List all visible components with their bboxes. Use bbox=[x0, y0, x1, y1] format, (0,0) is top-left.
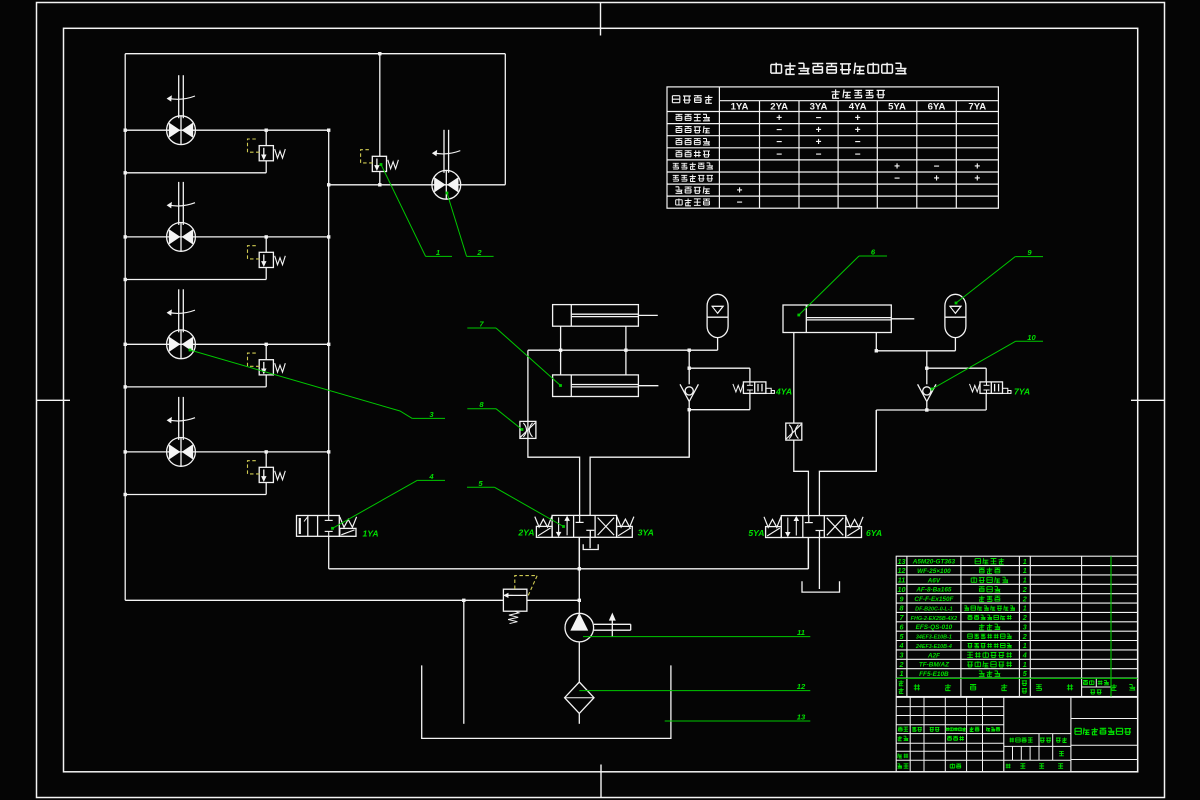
BOM row 8 直动锥阀外控压阀 bbox=[900, 604, 1027, 613]
wire tank drop bbox=[463, 600, 465, 724]
svg-text:12: 12 bbox=[797, 682, 806, 691]
node bypass2 bottom bbox=[925, 408, 928, 411]
balloon label 7 bbox=[467, 320, 562, 387]
cycle row 扫盘停止 bbox=[676, 150, 710, 157]
wire motor M4 supply line bbox=[125, 451, 329, 453]
BOM row 10 单向阀 bbox=[898, 585, 1027, 594]
wire motor M2 supply line bbox=[125, 236, 329, 238]
wire check valve CV2 branch bbox=[926, 351, 928, 385]
relief valve RV6 system unloading bbox=[503, 589, 527, 623]
check valve CV2 bbox=[918, 384, 936, 401]
wire cylinder C3 right port bbox=[875, 333, 877, 351]
svg-text:CF-F-Ex150F: CF-F-Ex150F bbox=[914, 596, 954, 603]
directional valve V3 (3-pos 4-way) bbox=[764, 516, 863, 538]
cycle table grid bbox=[667, 87, 998, 208]
node tee RV4 bbox=[265, 450, 268, 453]
svg-text:1YA: 1YA bbox=[731, 102, 749, 113]
svg-text:+: + bbox=[816, 125, 822, 136]
pilot line RV5 bbox=[361, 150, 373, 163]
node RV5 top bbox=[378, 52, 381, 55]
wire right manifold bbox=[876, 350, 955, 352]
node rail M4 bbox=[124, 450, 127, 453]
node tank drop tee bbox=[462, 599, 465, 602]
hydraulic cylinder C1 bbox=[553, 305, 658, 327]
svg-text:−: − bbox=[737, 198, 743, 209]
svg-text:1: 1 bbox=[1023, 566, 1027, 575]
pump P1 bbox=[565, 613, 594, 642]
solenoid valve V4 bbox=[733, 382, 775, 394]
oil tank T1 bbox=[422, 665, 671, 738]
node relief tee bbox=[578, 599, 581, 602]
svg-text:11: 11 bbox=[898, 576, 905, 585]
svg-text:1: 1 bbox=[436, 248, 440, 257]
svg-text:+: + bbox=[855, 125, 861, 136]
solenoid valve V5 bbox=[970, 382, 1012, 394]
svg-text:8: 8 bbox=[900, 604, 904, 613]
svg-text:EFS-QS-010: EFS-QS-010 bbox=[916, 624, 953, 631]
svg-text:−: − bbox=[816, 149, 822, 160]
cycle row 垃圾箱锁止 bbox=[673, 175, 713, 182]
node right manifold bbox=[875, 349, 878, 352]
svg-text:1: 1 bbox=[1023, 604, 1027, 613]
svg-text:2: 2 bbox=[1022, 585, 1027, 594]
BOM green vertical line bbox=[1110, 556, 1112, 696]
wire valve V3 port T bbox=[818, 538, 820, 590]
wire valve V3 port B jog bbox=[819, 410, 876, 516]
svg-text:FHG-2-EX25B-4X2: FHG-2-EX25B-4X2 bbox=[911, 616, 957, 622]
svg-text:3YA: 3YA bbox=[810, 102, 828, 113]
balloon label 10 bbox=[931, 333, 1043, 391]
svg-text:FF5-E10B: FF5-E10B bbox=[919, 671, 949, 678]
directional valve V2 (3-pos 4-way) bbox=[535, 515, 634, 537]
svg-text:10: 10 bbox=[1027, 333, 1036, 342]
wire valve V2 port B jog bbox=[590, 410, 689, 516]
svg-text:4: 4 bbox=[1022, 651, 1027, 660]
svg-text:7YA: 7YA bbox=[1014, 387, 1030, 397]
node bypass bottom bbox=[688, 408, 691, 411]
svg-text:1: 1 bbox=[900, 669, 904, 678]
wire pump to filter bbox=[578, 642, 580, 682]
svg-text:1: 1 bbox=[1023, 557, 1027, 566]
svg-text:2: 2 bbox=[1022, 632, 1027, 641]
svg-text:A6V: A6V bbox=[927, 577, 941, 584]
cycle row 垃圾箱上升 bbox=[673, 163, 713, 170]
wire top line bbox=[125, 53, 505, 55]
hydraulic motor M2 bbox=[167, 182, 196, 251]
balloon label 11 bbox=[583, 628, 810, 637]
relief valve RV5 bbox=[372, 156, 398, 171]
svg-text:7YA: 7YA bbox=[968, 102, 986, 113]
wire cylinder C3 left port bbox=[793, 333, 795, 424]
centering mark bottom bbox=[600, 765, 602, 798]
svg-text:+: + bbox=[894, 161, 900, 172]
svg-text:34EF3-E10B-1: 34EF3-E10B-1 bbox=[916, 635, 952, 641]
svg-text:−: − bbox=[776, 125, 782, 136]
wire cylinder C1 right port bbox=[625, 326, 627, 375]
BOM parts table bbox=[896, 556, 1137, 696]
node pressure tee bbox=[578, 567, 581, 570]
wire valve V3 port A jog bbox=[794, 440, 809, 515]
svg-text:−: − bbox=[776, 137, 782, 148]
wire bus below 1YA bbox=[328, 536, 330, 569]
wire B line down bbox=[875, 410, 877, 471]
wire bus vertical bbox=[328, 130, 330, 515]
hydraulic motor M4 bbox=[167, 397, 196, 466]
svg-text:+: + bbox=[934, 174, 940, 185]
wire return line to tank bbox=[125, 599, 503, 601]
pilot line RV4 bbox=[248, 461, 260, 474]
hydraulic cylinder C3 bbox=[783, 305, 914, 333]
cycle row 道路行走 bbox=[676, 199, 710, 206]
wire cylinder manifold left bbox=[528, 349, 718, 351]
node cyl ports bbox=[559, 349, 562, 352]
centering mark top bbox=[600, 3, 602, 36]
node RV5 bottom bbox=[378, 183, 381, 186]
node bus top bbox=[327, 129, 330, 132]
wire right drop to motor M5 bbox=[504, 54, 506, 185]
wire relief RV3 drop bbox=[265, 344, 267, 359]
node rail M1 bbox=[124, 129, 127, 132]
svg-text:1: 1 bbox=[1023, 660, 1027, 669]
wire motor M3 return line bbox=[125, 386, 266, 388]
node rail M3 bbox=[124, 343, 127, 346]
node bypass2 top bbox=[925, 367, 928, 370]
balloon label 6 bbox=[797, 248, 887, 317]
wire bypass bottom line bbox=[689, 409, 750, 411]
relief valve RV4 bbox=[259, 467, 285, 482]
wire relief RV1 drop bbox=[265, 130, 267, 145]
throttle valve TH1 bbox=[520, 421, 536, 438]
svg-text:WF-25×100: WF-25×100 bbox=[917, 568, 951, 575]
svg-text:+: + bbox=[737, 186, 743, 197]
svg-text:5YA: 5YA bbox=[888, 102, 906, 113]
BOM row 4 二位二通换向阀 bbox=[899, 641, 1027, 650]
pilot line RV3 bbox=[248, 353, 260, 366]
node tee RV1 bbox=[265, 129, 268, 132]
cycle row 清扫作业 bbox=[676, 186, 710, 193]
balloon label 5 bbox=[467, 479, 565, 528]
accumulator A2 bbox=[945, 294, 966, 337]
svg-text:13: 13 bbox=[797, 713, 806, 722]
svg-text:−: − bbox=[894, 174, 900, 185]
wire valve V3 port P bbox=[807, 538, 809, 569]
cycle row 扫盘下降 bbox=[676, 114, 710, 121]
node bus M3 bbox=[327, 343, 330, 346]
relief valve RV3 bbox=[259, 360, 285, 375]
wire valve V2 port A jog bbox=[528, 350, 580, 515]
wire relief RV4 drop bbox=[265, 452, 267, 467]
relief valve RV1 bbox=[259, 146, 285, 161]
hydraulic motor M1 bbox=[167, 75, 196, 144]
svg-text:−: − bbox=[816, 113, 822, 124]
balloon label 8 bbox=[467, 400, 523, 431]
svg-text:4YA: 4YA bbox=[849, 102, 867, 113]
balloon label 2 bbox=[446, 192, 494, 257]
node bus M5 bbox=[327, 183, 330, 186]
hydraulic motor M3 bbox=[167, 289, 196, 358]
wire cylinder C1 left port bbox=[560, 326, 562, 375]
wire accumulator A2 stem bbox=[954, 338, 956, 351]
wire left supply rail bbox=[124, 54, 126, 601]
wire 1YA to pump junction bbox=[329, 568, 580, 570]
svg-text:12: 12 bbox=[898, 566, 906, 575]
BOM row 2 水平驱动马达 bbox=[899, 660, 1027, 669]
balloon label 12 bbox=[579, 682, 810, 691]
wire relief RV2 drop bbox=[265, 237, 267, 252]
svg-text:TF-BM/AZ: TF-BM/AZ bbox=[919, 662, 950, 669]
tank symbol under V2 bbox=[583, 544, 598, 549]
drawing title 液压系统原理图 bbox=[1075, 728, 1131, 735]
svg-text:2: 2 bbox=[476, 248, 482, 257]
svg-text:2: 2 bbox=[1022, 594, 1027, 603]
svg-text:6YA: 6YA bbox=[928, 102, 946, 113]
node bypass top bbox=[688, 367, 691, 370]
svg-text:DF-B20C-0-L-1: DF-B20C-0-L-1 bbox=[915, 606, 952, 612]
wire motor M1 supply line bbox=[125, 129, 329, 131]
svg-text:9: 9 bbox=[900, 594, 904, 603]
valve 1YA 2/2 solenoid valve bbox=[297, 516, 357, 537]
throttle valve TH2 bbox=[786, 423, 802, 440]
node tee RV3 bbox=[265, 343, 268, 346]
BOM row 12 过滤器 bbox=[898, 566, 1027, 575]
BOM row 7 扫盘升降液压缸 bbox=[900, 613, 1027, 622]
svg-text:2YA: 2YA bbox=[517, 528, 534, 538]
cycle table title bbox=[771, 63, 907, 75]
BOM row 6 节流阀 bbox=[900, 622, 1027, 631]
wire bypass2 top line bbox=[927, 367, 986, 369]
wire motor M1 return line bbox=[125, 172, 266, 174]
svg-text:−: − bbox=[776, 149, 782, 160]
wire motor M5 line bbox=[329, 184, 506, 186]
svg-text:+: + bbox=[974, 174, 980, 185]
wire relief RV5 drop bbox=[379, 54, 381, 157]
svg-text:−: − bbox=[934, 161, 940, 172]
cycle table headers bbox=[672, 95, 712, 103]
hydraulic motor M5 bbox=[432, 130, 461, 199]
svg-text:1: 1 bbox=[1023, 641, 1027, 650]
svg-text:2: 2 bbox=[899, 660, 904, 669]
cycle row 扫盘作业 bbox=[676, 126, 710, 133]
pilot line RV1 bbox=[248, 139, 260, 152]
svg-text:+: + bbox=[974, 161, 980, 172]
node bus M4 bbox=[327, 450, 330, 453]
wire pump pressure riser bbox=[578, 537, 580, 613]
balloon label 13 bbox=[665, 713, 811, 722]
balloon label 3 bbox=[189, 349, 445, 419]
wire check valve CV1 branch bbox=[688, 350, 690, 384]
svg-text:+: + bbox=[855, 113, 861, 124]
svg-text:−: − bbox=[855, 149, 861, 160]
svg-text:+: + bbox=[776, 113, 782, 124]
BOM green separator line bbox=[896, 677, 1137, 679]
title block grid bbox=[896, 697, 1137, 772]
relief valve RV2 bbox=[259, 252, 285, 267]
pilot line RV2 bbox=[248, 246, 260, 259]
BOM row 11 齿轮液压泵 bbox=[898, 576, 1027, 585]
svg-text:13: 13 bbox=[898, 557, 906, 566]
node tee RV2 bbox=[265, 235, 268, 238]
check valve CV1 bbox=[680, 384, 698, 401]
wire pressure line to right valve bbox=[579, 568, 808, 570]
svg-text:1: 1 bbox=[1023, 576, 1027, 585]
BOM row 3 摆线齿轮马达 bbox=[900, 651, 1027, 660]
BOM row 9 蓄能器 bbox=[900, 594, 1027, 603]
wire filter to tank bbox=[578, 713, 580, 723]
svg-text:5YA: 5YA bbox=[748, 528, 764, 538]
balloon label 1 bbox=[380, 163, 452, 257]
balloon label 9 bbox=[955, 248, 1043, 304]
BOM row 1 溢流阀 bbox=[900, 669, 1028, 678]
svg-text:+: + bbox=[816, 137, 822, 148]
hydraulic cylinder C2 bbox=[553, 375, 659, 397]
svg-text:6YA: 6YA bbox=[866, 528, 882, 538]
svg-text:4YA: 4YA bbox=[775, 387, 792, 397]
BOM row 5 三位四通换向阀 bbox=[900, 632, 1027, 641]
svg-text:3YA: 3YA bbox=[638, 528, 654, 538]
BOM row 13 液压油箱 bbox=[898, 557, 1027, 566]
wire bypass2 bottom line bbox=[876, 409, 986, 411]
node rail M2 bbox=[124, 235, 127, 238]
svg-text:2: 2 bbox=[1022, 613, 1027, 622]
svg-text:4: 4 bbox=[899, 641, 904, 650]
svg-text:24EF3-E10B-4: 24EF3-E10B-4 bbox=[915, 644, 952, 650]
pump drive symbol bbox=[594, 614, 631, 637]
tank symbol under V3 bbox=[802, 581, 840, 592]
svg-text:1YA: 1YA bbox=[362, 529, 378, 539]
centering mark left bbox=[37, 399, 71, 401]
svg-text:3: 3 bbox=[1023, 622, 1027, 631]
svg-text:−: − bbox=[855, 137, 861, 148]
cycle row 扫盘上升 bbox=[676, 139, 710, 146]
node bus M2 bbox=[327, 235, 330, 238]
wire motor M3 supply line bbox=[125, 343, 329, 345]
svg-text:2YA: 2YA bbox=[770, 102, 788, 113]
wire bypass top line bbox=[689, 367, 750, 369]
BOM header row bbox=[899, 680, 1136, 694]
svg-text:A2F: A2F bbox=[927, 652, 941, 659]
wire motor M2 return line bbox=[125, 279, 266, 281]
svg-text:11: 11 bbox=[797, 628, 805, 637]
svg-text:4: 4 bbox=[428, 472, 434, 481]
svg-text:A5M20-GT363: A5M20-GT363 bbox=[912, 559, 956, 566]
svg-text:3: 3 bbox=[900, 651, 904, 660]
wire valve V2 port P bbox=[578, 537, 580, 569]
pilot line RV6 bbox=[515, 576, 537, 597]
title block row labels bbox=[897, 727, 1067, 769]
wire accumulator A1 stem bbox=[717, 338, 719, 351]
centering mark right bbox=[1131, 399, 1165, 401]
balloon label 4 bbox=[331, 472, 445, 530]
svg-text:10: 10 bbox=[898, 585, 906, 594]
accumulator A1 bbox=[707, 294, 728, 337]
wire motor M4 return line bbox=[125, 494, 266, 496]
wire valve V2 port T bbox=[589, 537, 591, 548]
filter F1 bbox=[565, 682, 594, 713]
svg-text:AF-8-Ba165: AF-8-Ba165 bbox=[915, 587, 952, 594]
